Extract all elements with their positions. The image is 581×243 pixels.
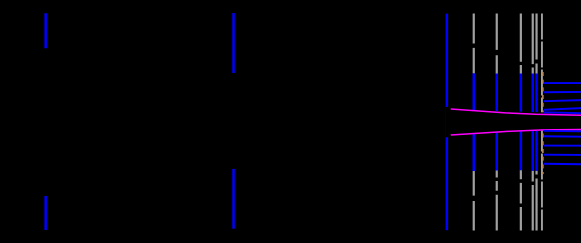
surface V2 gray dashed lower edge <box>473 171 475 231</box>
surface V4 blue clear aperture <box>520 73 523 170</box>
image-space ray r5 <box>544 111 581 114</box>
image-space ray r3 <box>544 100 581 101</box>
lens L1 surface (lower part) <box>44 196 47 230</box>
marginal ray M4 (magenta, lower) <box>451 129 581 135</box>
surface V4 gray dashed lower edge <box>520 170 522 230</box>
surface V3 gray dashed lower edge <box>496 170 498 230</box>
surface V3 blue clear aperture <box>496 73 499 170</box>
lens L2 surface (lower part) <box>232 169 235 229</box>
surface V2 blue clear aperture <box>473 73 476 171</box>
image plane V8 (tan dashed) <box>542 72 544 174</box>
surface V6 gray dashed lower edge <box>535 171 537 231</box>
marginal ray M1 (magenta, upper) <box>451 109 581 115</box>
surface V6 gray dashed upper edge <box>535 14 537 74</box>
image-space ray r2 <box>544 91 581 93</box>
image-plane support line V7 (gray, solid) <box>541 14 543 231</box>
image-space ray r7 <box>544 135 581 137</box>
lens L2 surface (upper part) <box>232 13 235 73</box>
image-space ray r6 <box>543 130 581 133</box>
surface V5 gray dashed upper edge <box>532 14 534 74</box>
image-space ray r9 <box>544 154 581 156</box>
lens L1 surface (upper part) <box>44 13 47 48</box>
image-space ray r1 <box>544 82 581 84</box>
surface V5 gray dashed lower edge <box>532 171 534 231</box>
surface V6 blue clear aperture <box>535 73 538 170</box>
image-space ray r8 <box>544 145 581 147</box>
black beam wedge covering surfaces inside the converging bundle <box>446 107 544 138</box>
surface V3 gray dashed upper edge <box>496 14 498 74</box>
surface V5 blue clear aperture <box>532 73 535 170</box>
image-space ray r4 <box>544 108 581 110</box>
surface V4 gray dashed upper edge <box>520 14 522 74</box>
surface V1 (blue, full height) <box>446 14 449 231</box>
image-space ray r10 <box>544 163 581 166</box>
surface V2 gray dashed upper edge <box>473 14 475 74</box>
